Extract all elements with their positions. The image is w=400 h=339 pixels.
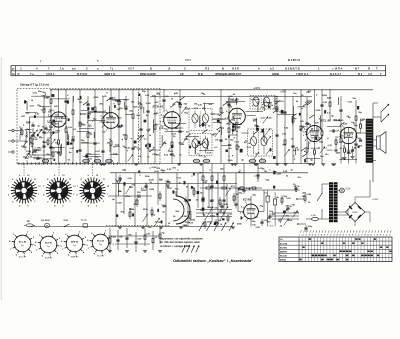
ground bus wire	[17, 163, 312, 165]
svg-text:10n: 10n	[351, 122, 355, 124]
svg-text:2: 2	[102, 127, 103, 129]
svg-text:B250: B250	[352, 212, 358, 214]
svg-text:+ 14 П h: + 14 П h	[332, 67, 343, 71]
output stage coupling	[314, 90, 316, 100]
svg-text:1M: 1M	[215, 139, 218, 141]
svg-text:7: 7	[318, 234, 319, 236]
svg-text:4: 4	[48, 114, 49, 117]
heater winding wires	[337, 214, 348, 216]
svg-text:50p: 50p	[265, 180, 269, 182]
svg-text:5: 5	[166, 110, 167, 112]
svg-text:N 1: N 1	[358, 72, 363, 76]
svg-text:4: 4	[241, 206, 242, 209]
svg-text:1: 1	[53, 129, 54, 131]
svg-text:220k: 220k	[133, 106, 139, 108]
svg-text:3: 3	[333, 234, 334, 236]
ground terminal	[12, 151, 14, 153]
svg-text:1M: 1M	[264, 171, 267, 173]
svg-text:ECH 81: ECH 81	[45, 258, 53, 260]
svg-text:ECC 85: ECC 85	[80, 112, 91, 116]
upper band junction dots	[257, 126, 258, 127]
svg-text:1: 1	[327, 234, 328, 236]
svg-text:10n: 10n	[228, 106, 232, 108]
svg-text:100p: 100p	[86, 153, 92, 155]
svg-text:0,5M: 0,5M	[307, 194, 312, 196]
svg-text:10n: 10n	[129, 208, 133, 210]
svg-text:4PM2Ц38.HRN3.53.P: 4PM2Ц38.HRN3.53.P	[215, 72, 242, 76]
svg-text:1M: 1M	[347, 135, 350, 137]
svg-text:70p: 70p	[163, 128, 167, 130]
svg-text:7 e: 7 e	[30, 72, 34, 76]
pilot lamp	[340, 188, 345, 193]
power section small parts	[281, 198, 283, 202]
bridge rectifier B250C75	[355, 203, 365, 213]
svg-text:10n: 10n	[297, 177, 301, 179]
svg-text:Odbiralčki radiovc „Kosikav“: Odbiralčki radiovc „Kosikav“ i „Noseknad…	[173, 259, 253, 263]
svg-text:70p: 70p	[156, 93, 160, 95]
svg-text:N: N	[18, 72, 20, 76]
OT primary feed parts	[360, 124, 362, 128]
mains transformer laminations	[329, 184, 332, 186]
svg-text:1M: 1M	[292, 205, 295, 207]
svg-text:6: 6	[343, 234, 344, 236]
top right wire	[330, 89, 373, 91]
power section drop wires	[202, 164, 204, 215]
variable trimmer arrows	[254, 152, 259, 159]
svg-text:0,5M: 0,5M	[93, 97, 98, 99]
svg-text:Zn i NF, bez oznaka napona, uz: Zn i NF, bez oznaka napona, uzeti	[159, 241, 200, 244]
antenna input terminal A1	[12, 129, 14, 131]
svg-text:2: 2	[358, 234, 359, 236]
svg-text:3: 3	[303, 135, 304, 137]
svg-text:1: 1	[299, 234, 300, 236]
parts list strip middle rule	[11, 70, 386, 72]
svg-text:30p: 30p	[122, 170, 126, 172]
fuse F1	[26, 224, 33, 227]
coupling cap C-k	[332, 129, 334, 132]
svg-text:ECL 86: ECL 86	[97, 240, 105, 242]
svg-text:B B: B B	[198, 72, 203, 76]
svg-text:7: 7	[346, 234, 347, 236]
svg-text:10n: 10n	[311, 138, 315, 140]
mains transformer primary wires	[322, 183, 329, 185]
FM dipole arrows	[381, 104, 389, 112]
svg-text:6,3V: 6,3V	[346, 189, 351, 191]
svg-text:R P 0,07: R P 0,07	[77, 72, 88, 76]
svg-text:1M: 1M	[236, 123, 239, 125]
svg-text:+90V: +90V	[280, 90, 286, 93]
input wire	[14, 130, 20, 132]
svg-text:10n: 10n	[238, 172, 242, 174]
svg-text:1M: 1M	[237, 146, 240, 148]
tube V1 ECC85a	[51, 112, 66, 127]
speaker wires	[373, 139, 377, 141]
svg-text:a 3: a 3	[270, 67, 274, 71]
svg-text:+245V: +245V	[372, 199, 379, 201]
svg-text:1A: 1A	[27, 220, 30, 223]
svg-text:5: 5	[53, 110, 54, 112]
svg-text:70p: 70p	[131, 184, 135, 186]
AF ground symbols	[118, 226, 122, 228]
svg-text:EZ 80: EZ 80	[243, 198, 251, 202]
tuning gang C-var	[196, 209, 232, 211]
svg-text:B 3 88 7 8: B 3 88 7 8	[288, 58, 301, 62]
parts list index cell divider	[15, 66, 17, 76]
svg-text:0,5M: 0,5M	[117, 202, 122, 204]
svg-text:Zv-uč: Zv-uč	[81, 219, 88, 222]
svg-text:100p: 100p	[167, 187, 173, 189]
svg-text:9: 9	[352, 234, 353, 236]
svg-text:30p: 30p	[155, 124, 159, 126]
AVC bus wire	[110, 172, 308, 174]
svg-text:7: 7	[374, 234, 375, 236]
stage component columns	[43, 96, 45, 164]
mains switch	[317, 194, 322, 202]
svg-text:П 3: П 3	[205, 67, 210, 71]
svg-text:9-p: 9-p	[21, 245, 24, 247]
svg-text:B: B	[150, 67, 152, 71]
svg-text:0,5M: 0,5M	[22, 147, 27, 149]
table row rules	[279, 240, 392, 242]
svg-text:2: 2	[386, 234, 387, 236]
svg-text:ECH 81: ECH 81	[153, 105, 164, 109]
svg-text:50p: 50p	[55, 143, 59, 145]
svg-text:9: 9	[324, 234, 325, 236]
svg-text:0,5M: 0,5M	[149, 180, 154, 182]
svg-text:3: 3	[389, 234, 390, 236]
svg-text:220k: 220k	[141, 190, 147, 192]
svg-text:50p: 50p	[220, 128, 224, 130]
svg-text:10n: 10n	[202, 108, 206, 110]
svg-text:+225V: +225V	[253, 87, 261, 90]
svg-text:30p: 30p	[95, 157, 99, 159]
band switch wafer S1a	[15, 182, 33, 200]
svg-text:10n: 10n	[200, 193, 204, 195]
antenna coil L1	[20, 128, 21, 130]
svg-text:500k: 500k	[228, 160, 234, 162]
electrolytic C51	[274, 199, 277, 205]
svg-text:N: N	[12, 72, 14, 76]
table data marks	[321, 255, 323, 256]
svg-text:30p: 30p	[252, 194, 256, 196]
svg-text:220k: 220k	[336, 153, 342, 155]
svg-text:N 7: N 7	[355, 67, 360, 71]
svg-text:10n: 10n	[273, 171, 277, 173]
svg-text:0,5M: 0,5M	[111, 237, 116, 239]
svg-text:LR: LR	[180, 72, 184, 76]
svg-text:ECC 85: ECC 85	[19, 257, 27, 259]
svg-text:220k: 220k	[55, 130, 61, 132]
switch contact	[65, 224, 70, 227]
tube socket view ECH81	[40, 236, 57, 253]
stub vertical wires	[143, 107, 145, 113]
svg-text:100p: 100p	[36, 149, 42, 151]
band switch dashed enclosure	[17, 89, 139, 165]
svg-text:220k: 220k	[143, 209, 149, 211]
svg-text:iz istosm. r. opsega 0,5W: iz istosm. r. opsega 0,5W	[160, 245, 191, 248]
dial cord lines	[272, 212, 299, 214]
dense component bodies lower	[214, 223, 216, 225]
antenna input terminal A2	[12, 140, 14, 142]
svg-text:P: P	[12, 67, 14, 71]
svg-text:B 3 N B T B: B 3 N B T B	[285, 67, 300, 71]
svg-text:2: 2	[305, 140, 306, 142]
svg-text:8: 8	[321, 234, 322, 236]
svg-text:a e: a e	[72, 68, 76, 71]
svg-text:30p: 30p	[282, 144, 286, 146]
filter resistor chain	[200, 187, 262, 189]
svg-text:70p: 70p	[230, 139, 234, 141]
svg-text:3: 3	[361, 234, 362, 236]
svg-text:9-p: 9-p	[47, 246, 50, 248]
svg-text:4 5 7: 4 5 7	[185, 58, 191, 62]
svg-text:1: 1	[343, 145, 344, 147]
input selector cluster	[21, 130, 23, 134]
svg-text:EBF 89: EBF 89	[71, 241, 79, 243]
output transformer primary wires	[356, 132, 366, 134]
svg-text:8: 8	[377, 234, 378, 236]
B+ to OT wire	[366, 121, 373, 123]
mains voltage selector	[45, 223, 50, 228]
svg-text:10n: 10n	[293, 93, 297, 95]
svg-text:220k: 220k	[125, 196, 131, 198]
B+ rail wire	[50, 89, 330, 91]
tube socket view ECL86	[92, 234, 109, 251]
wire IFT to V4	[212, 118, 229, 120]
svg-text:30p: 30p	[142, 91, 146, 93]
svg-text:220k: 220k	[276, 173, 282, 175]
ferrite antenna symbol	[118, 184, 120, 196]
svg-text:0,5M: 0,5M	[149, 189, 154, 191]
input shield box	[30, 117, 52, 155]
tone control cluster	[109, 228, 111, 252]
rectifier V7 wires	[250, 196, 252, 205]
band box contact ticks	[18, 162, 20, 165]
svg-text:5: 5	[312, 234, 313, 236]
svg-text:Opseg KT (g 13,9 m): Opseg KT (g 13,9 m)	[20, 82, 49, 86]
wafer mechanical link dashed	[23, 164, 25, 177]
detector bus wire	[108, 195, 152, 197]
svg-text:OSV: OSV	[64, 220, 69, 222]
svg-text:3: 3	[160, 121, 161, 123]
right vertical feed wire	[372, 103, 374, 182]
svg-text:1: 1	[309, 143, 310, 145]
dial pointer arrows	[199, 223, 204, 232]
AF stage small components	[118, 177, 121, 179]
svg-text:9-p: 9-p	[73, 245, 76, 247]
tube V7 EZ80 rectifier	[244, 204, 259, 219]
svg-text:100p: 100p	[162, 117, 168, 119]
svg-text:JI: JI	[168, 67, 170, 71]
IF transformer IFT3	[250, 96, 276, 110]
svg-text:50p: 50p	[183, 225, 187, 227]
svg-text:4328 7 H: 4328 7 H	[104, 72, 115, 76]
svg-text:3: 3	[306, 234, 307, 236]
band switch wafer S1b	[50, 182, 68, 200]
power wires	[237, 190, 239, 212]
svg-text:ECC85: ECC85	[280, 243, 288, 245]
svg-text:EBF 89: EBF 89	[71, 257, 79, 259]
wafer link to dial dashed	[106, 190, 131, 192]
dense component bodies upper	[24, 101, 26, 104]
mains transformer core	[329, 183, 332, 223]
table column rules	[298, 237, 300, 262]
svg-text:3: 3	[240, 213, 241, 215]
IF transformer IFT1	[189, 109, 212, 131]
svg-text:5: 5	[342, 125, 343, 127]
svg-text:2: 2	[302, 234, 303, 236]
svg-text:50p: 50p	[81, 140, 85, 142]
gang link dashed	[106, 225, 170, 227]
svg-text:Napomena: sve otpornike označe: Napomena: sve otpornike označene	[160, 238, 203, 241]
svg-text:2: 2	[339, 142, 340, 144]
svg-text:10n: 10n	[228, 148, 232, 150]
tone cluster grounds	[108, 250, 112, 252]
svg-text:10n: 10n	[43, 142, 47, 144]
svg-text:ECL86: ECL86	[280, 256, 288, 258]
svg-text:7 B07 H 4: 7 B07 H 4	[296, 72, 309, 76]
output transformer laminations	[366, 120, 372, 122]
svg-text:10n: 10n	[148, 227, 152, 229]
svg-text:ECC 85: ECC 85	[19, 241, 27, 243]
cathode bypass C	[351, 149, 354, 151]
IF transformer IFT2	[189, 134, 212, 156]
svg-text:30p: 30p	[293, 118, 297, 120]
svg-text:5: 5	[368, 234, 369, 236]
tube socket view EBF89	[66, 235, 83, 252]
svg-text:1M: 1M	[236, 194, 239, 196]
mains input wires	[300, 198, 306, 200]
svg-text:ECH81: ECH81	[280, 247, 288, 249]
svg-text:4 6 8 1 .: 4 6 8 1 .	[46, 72, 56, 76]
svg-text:100p: 100p	[308, 226, 313, 228]
svg-text:3: 3	[337, 137, 338, 139]
svg-text:0,5M: 0,5M	[33, 139, 38, 141]
svg-text:10n: 10n	[199, 155, 203, 157]
svg-text:1M: 1M	[122, 134, 125, 136]
oscillator coil formers	[42, 159, 49, 163]
svg-text:6: 6	[315, 234, 316, 236]
svg-text:H 3 П: H 3 П	[232, 67, 239, 71]
svg-text:0,5M: 0,5M	[146, 103, 151, 105]
interconnect link wires	[165, 130, 184, 132]
chassis ground symbols	[321, 163, 325, 165]
junction dots	[124, 169, 125, 170]
svg-text:30p: 30p	[354, 125, 358, 127]
svg-text:220k: 220k	[61, 118, 67, 120]
svg-text:500k: 500k	[255, 126, 261, 128]
top right antenna stub	[373, 102, 378, 104]
heater bus wire	[30, 226, 233, 228]
svg-text:1 b: 1 b	[60, 67, 64, 71]
svg-text:4 5 7: 4 5 7	[128, 67, 134, 71]
parts list strip frame	[11, 66, 386, 76]
svg-text:ECL 86: ECL 86	[97, 256, 104, 258]
tube V4 EBF89	[229, 108, 246, 125]
rail drop wires	[243, 164, 245, 189]
svg-text:100p: 100p	[226, 124, 232, 126]
svg-text:0,5M: 0,5M	[182, 216, 187, 218]
dashed enclosure right extension	[139, 88, 161, 90]
svg-text:1M: 1M	[79, 102, 82, 104]
svg-text:Я: Я	[368, 67, 370, 71]
svg-text:4 3: 4 3	[368, 72, 372, 76]
svg-text:30p: 30p	[39, 137, 43, 139]
table frame	[279, 237, 392, 262]
svg-text:BRB N,X238: BRB N,X238	[140, 72, 156, 76]
svg-text:100p: 100p	[207, 207, 213, 209]
svg-text:220k: 220k	[152, 154, 158, 156]
svg-text:10n: 10n	[113, 146, 117, 148]
svg-text:3: 3	[100, 122, 101, 124]
svg-text:ECH 81: ECH 81	[45, 242, 53, 244]
svg-text:4: 4	[101, 114, 102, 117]
svg-text:2: 2	[242, 217, 243, 219]
grid resistor Rg	[335, 140, 337, 144]
page left edge shadow	[0, 57, 2, 300]
svg-text:110-220V: 110-220V	[41, 220, 51, 222]
svg-text:2: 2	[330, 234, 331, 236]
svg-text:10n: 10n	[325, 154, 329, 156]
svg-text:10n: 10n	[55, 115, 59, 117]
svg-text:5: 5	[245, 202, 246, 204]
pickup jack	[83, 224, 88, 227]
svg-text:B 2 b 4 7: B 2 b 4 7	[330, 72, 342, 76]
AF area vertical wires	[115, 173, 117, 227]
svg-text:7 j: 7 j	[110, 67, 113, 71]
speaker	[377, 136, 381, 149]
tube socket view ECC85	[14, 235, 31, 252]
svg-text:50p: 50p	[184, 113, 188, 115]
svg-text:1: 1	[355, 234, 356, 236]
svg-text:0,5M: 0,5M	[315, 110, 320, 112]
svg-text:H02B: H02B	[272, 72, 279, 76]
svg-text:10n: 10n	[102, 131, 106, 133]
svg-text:0,5M: 0,5M	[112, 100, 117, 102]
svg-text:10n: 10n	[320, 156, 324, 158]
svg-text:EBF89: EBF89	[280, 251, 288, 253]
screen rail wire	[150, 96, 312, 98]
electrolytic C50	[266, 196, 269, 202]
svg-text:8: 8	[349, 234, 350, 236]
svg-text:30p: 30p	[231, 120, 235, 122]
input trimmer C1	[31, 134, 34, 136]
antenna coil L2	[26, 131, 27, 133]
svg-text:220k: 220k	[168, 151, 174, 153]
svg-text:4: 4	[338, 129, 339, 132]
svg-text:1: 1	[383, 234, 384, 236]
lower bus wire	[112, 183, 237, 185]
tube V5 ECL86 triode	[307, 126, 323, 142]
output transformer core	[366, 119, 373, 163]
svg-text:1M: 1M	[199, 173, 202, 175]
svg-text:10n: 10n	[112, 97, 116, 99]
svg-text:500k: 500k	[237, 223, 243, 225]
svg-text:220k: 220k	[145, 176, 151, 178]
cathode resistor Rk1	[348, 143, 350, 150]
svg-text:30p: 30p	[358, 112, 362, 114]
svg-text:6: 6	[371, 234, 372, 236]
tone cluster link wires	[108, 235, 160, 237]
svg-text:4: 4	[226, 110, 227, 113]
svg-text:9-p: 9-p	[99, 244, 102, 246]
adjustment arrow cluster	[182, 246, 185, 253]
svg-text:N: N	[222, 67, 224, 71]
svg-text:0,1A: 0,1A	[311, 214, 316, 217]
dial drum arcs	[176, 196, 190, 224]
band switch wafer S1c	[84, 182, 102, 200]
tube V6 ECL86 pentode	[340, 127, 356, 143]
